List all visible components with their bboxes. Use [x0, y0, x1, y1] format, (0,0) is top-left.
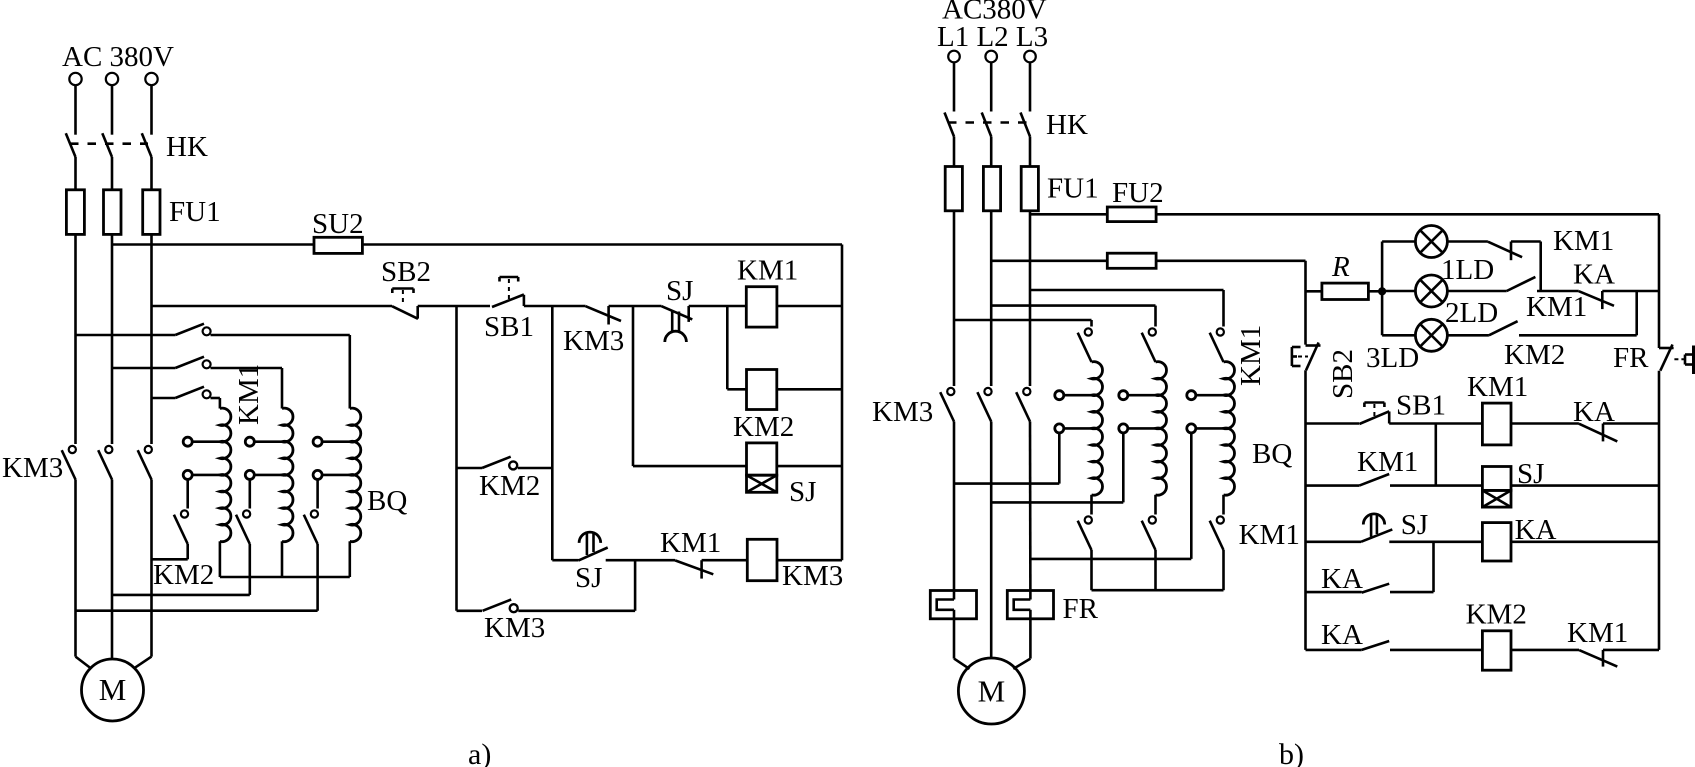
pushbutton SB1 (b)	[1364, 401, 1384, 404]
wire phase2 (b)	[990, 211, 993, 386]
contact KM3 power (b)	[947, 388, 954, 395]
wire	[1013, 659, 1030, 669]
resistor R	[1322, 283, 1369, 299]
contact KA NC (row4)	[1579, 424, 1617, 442]
wire	[111, 480, 114, 660]
lamp 3LD	[1415, 319, 1447, 351]
wire	[1511, 422, 1579, 425]
wire	[1090, 550, 1093, 590]
svg-text:2LD: 2LD	[1445, 297, 1498, 329]
wire	[1156, 259, 1305, 262]
wire	[953, 137, 956, 167]
wire top rail (a)	[112, 243, 314, 246]
svg-text:FU1: FU1	[1047, 173, 1099, 205]
wire	[1029, 610, 1032, 659]
svg-text:L1 L2 L3: L1 L2 L3	[937, 21, 1048, 53]
wire tap3 (b)	[1190, 433, 1193, 559]
coil KA (b)	[1482, 523, 1511, 561]
wire	[348, 541, 351, 577]
wire	[1511, 484, 1659, 487]
wire	[111, 157, 114, 190]
wire	[1222, 495, 1225, 515]
svg-text:M: M	[978, 674, 1006, 709]
contact KM2-3 (a)	[316, 479, 319, 508]
wire	[1511, 540, 1659, 543]
pushbutton SB1 (a)	[500, 276, 519, 279]
wire	[1447, 290, 1506, 293]
svg-text:KM1: KM1	[660, 527, 721, 559]
wire	[455, 306, 458, 611]
wire	[991, 259, 1107, 262]
svg-text:3LD: 3LD	[1366, 342, 1419, 374]
wire	[1029, 137, 1032, 167]
wire	[1368, 290, 1382, 293]
motor M (a)	[82, 659, 144, 721]
contact KM2-1 (a)	[186, 479, 189, 508]
fuse SU2	[314, 237, 362, 253]
svg-text:KM3: KM3	[563, 325, 624, 357]
wire	[1382, 290, 1415, 293]
contact KM1 NC (lamp1)	[1488, 242, 1522, 258]
wire	[1030, 289, 1224, 292]
terminal L1 (b)	[948, 51, 960, 63]
contact KM1-2 power (a)	[112, 367, 175, 370]
wire	[74, 480, 77, 657]
wire	[1432, 542, 1435, 592]
wire tap1 (b)	[1058, 433, 1061, 484]
fuse FU1-2 (b)	[983, 167, 1000, 211]
wire	[134, 657, 151, 669]
wire phase1 (b)	[953, 211, 956, 386]
contact KM3 power (a)	[105, 446, 112, 453]
contact KM1 bottom power (b)	[1085, 516, 1092, 523]
contact KM1 top power (b)	[1217, 328, 1224, 335]
contact KM1 bottom power (b)	[1149, 516, 1156, 523]
fuse FU2-2	[1107, 253, 1156, 268]
wire	[1156, 213, 1659, 216]
terminal L2 (b)	[985, 51, 997, 63]
svg-text:KM1: KM1	[1526, 291, 1587, 323]
contact SJ NO delayed (a)	[579, 532, 601, 543]
wire	[551, 306, 554, 560]
svg-text:KM3: KM3	[2, 452, 63, 484]
contact KM1 NO (lamp2)	[1507, 277, 1536, 291]
wire	[689, 305, 747, 308]
svg-text:HK: HK	[1046, 109, 1088, 141]
svg-text:KM2: KM2	[479, 470, 540, 502]
svg-text:KM2: KM2	[153, 559, 214, 591]
motor M (b)	[958, 658, 1024, 724]
wire	[1306, 591, 1362, 594]
wire	[518, 467, 553, 470]
svg-text:SB2: SB2	[1327, 349, 1359, 399]
fuse FU1-2 (a)	[104, 190, 122, 235]
coil KM2 (b)	[1482, 631, 1511, 670]
contact KM3 power (b)	[984, 388, 991, 395]
wire	[777, 388, 842, 391]
wire	[150, 157, 153, 190]
fuse FU1-3 (b)	[1021, 167, 1038, 211]
wire phase3 (b)	[1029, 211, 1032, 386]
svg-text:KM2: KM2	[1466, 599, 1527, 631]
svg-text:FR: FR	[1063, 593, 1099, 625]
terminal L3 (a)	[145, 73, 157, 85]
svg-text:KM1: KM1	[233, 364, 265, 425]
contact KM1 bottom power (b)	[1217, 516, 1224, 523]
svg-text:KM1: KM1	[1235, 325, 1267, 386]
wire star bus (a)	[220, 576, 350, 579]
contact KA NC (lamp row)	[1579, 291, 1614, 306]
overload FR heater 2 (b)	[1007, 591, 1053, 619]
wire	[1154, 306, 1157, 327]
wire	[1447, 334, 1489, 337]
svg-text:SB1: SB1	[1396, 390, 1446, 422]
transformer BQ winding 3 (a)	[350, 408, 361, 541]
wire phase3 (a)	[150, 234, 153, 444]
wire	[1306, 649, 1362, 652]
wire	[111, 85, 114, 135]
svg-text:SJ: SJ	[789, 476, 816, 508]
wire	[953, 610, 956, 659]
pushbutton SB2 (b)	[1306, 344, 1321, 347]
wire	[953, 422, 956, 600]
coil KM2 (a)	[747, 370, 777, 410]
wire	[609, 305, 662, 308]
svg-text:b): b)	[1279, 738, 1304, 767]
svg-text:M: M	[99, 672, 127, 707]
wire	[633, 465, 747, 468]
wire	[953, 62, 956, 111]
wire	[1090, 495, 1093, 515]
coil KM3 (a)	[747, 539, 777, 580]
wire	[1602, 290, 1659, 293]
wire	[1222, 290, 1225, 327]
svg-text:SB2: SB2	[381, 256, 431, 288]
wire	[457, 467, 483, 470]
wire	[1447, 240, 1488, 243]
wire	[777, 559, 842, 562]
terminal L3 (b)	[1024, 51, 1036, 63]
lamp 2LD	[1415, 275, 1447, 307]
svg-text:FU2: FU2	[1112, 177, 1164, 209]
contact KM2-2 (a)	[249, 479, 252, 508]
wire	[1539, 242, 1542, 292]
wire	[1306, 540, 1362, 543]
wire	[1382, 334, 1415, 337]
svg-text:KM1: KM1	[737, 255, 798, 287]
wire	[281, 541, 284, 577]
contact KM1 top power (b)	[1149, 328, 1156, 335]
wire	[418, 305, 490, 308]
overload FR heater 1 (b)	[930, 591, 976, 619]
svg-text:FU1: FU1	[169, 196, 221, 228]
wire	[990, 62, 993, 111]
wire	[1537, 290, 1579, 293]
pushbutton SB2 (a)	[392, 287, 413, 290]
svg-text:KM2: KM2	[733, 411, 794, 443]
wire top rail (b)	[1030, 213, 1107, 216]
contact KM2 NO (lamp3)	[1489, 321, 1518, 335]
wire	[990, 422, 993, 660]
wire	[1222, 550, 1225, 590]
svg-text:SJ: SJ	[575, 562, 602, 594]
wire	[1658, 371, 1661, 650]
wire	[1603, 422, 1659, 425]
wire	[777, 305, 842, 308]
svg-text:KM2: KM2	[1504, 339, 1565, 371]
svg-text:1LD: 1LD	[1441, 254, 1494, 286]
wire	[954, 659, 970, 669]
transformer BQ winding (b)	[1156, 362, 1167, 495]
wire	[74, 157, 77, 190]
fuse FU1-1 (b)	[945, 167, 962, 211]
wire	[524, 305, 586, 308]
contact SJ NC delayed (a rail)	[662, 306, 693, 319]
svg-text:BQ: BQ	[1252, 438, 1292, 470]
wire phase2 (a)	[111, 234, 114, 444]
wire	[1306, 484, 1360, 487]
contact KA NO (row7)	[1362, 641, 1390, 650]
fuse FU1-3 (a)	[143, 190, 160, 235]
contact SJ NO delayed (b)	[1363, 514, 1384, 525]
contact KM1 NO (b hold)	[1359, 474, 1389, 486]
contact KM1 NC (a)	[675, 560, 713, 574]
transformer BQ winding (b)	[1092, 362, 1103, 495]
wire	[1519, 334, 1637, 337]
wire	[777, 465, 842, 468]
wire phase1 (a)	[74, 234, 77, 444]
wire	[76, 657, 91, 669]
contact KM3 NC (a rail)	[586, 306, 621, 321]
contact KA NO (b hold)	[1362, 584, 1390, 593]
wire	[1306, 290, 1322, 293]
terminal L1 (a)	[69, 73, 81, 85]
switch HK (b) pole 2	[982, 113, 992, 137]
svg-text:KM3: KM3	[484, 612, 545, 644]
wire left bus (b)	[1304, 261, 1307, 345]
coil SJ (b)	[1482, 467, 1511, 491]
wire	[1389, 540, 1482, 543]
wire	[150, 85, 153, 135]
switch HK (b) linkage	[948, 121, 1027, 124]
wire	[1029, 422, 1032, 600]
wire	[362, 243, 842, 246]
svg-text:R: R	[1331, 251, 1350, 283]
wire	[1390, 591, 1434, 594]
svg-text:KM1: KM1	[1239, 519, 1300, 551]
wire	[1381, 242, 1384, 336]
coil SJ (a)	[747, 443, 777, 475]
svg-text:KM1: KM1	[1357, 446, 1418, 478]
wire	[634, 560, 637, 611]
wire	[219, 541, 222, 577]
wire right bus (a)	[841, 245, 844, 561]
wire	[1382, 240, 1415, 243]
wire	[1390, 484, 1482, 487]
wire right bus (b)	[1658, 214, 1661, 348]
wire	[152, 305, 393, 308]
wire	[457, 609, 483, 612]
svg-text:SJ: SJ	[1401, 509, 1428, 541]
switch HK (b) pole 1	[945, 113, 955, 137]
wire	[552, 559, 578, 562]
contact KM3 power (a)	[145, 446, 152, 453]
svg-text:SU2: SU2	[312, 208, 364, 240]
svg-text:a): a)	[468, 738, 491, 767]
wire	[1635, 291, 1638, 335]
wire	[1389, 422, 1482, 425]
svg-text:KA: KA	[1321, 563, 1363, 595]
svg-text:AC 380V: AC 380V	[62, 41, 174, 73]
contact KM3 power (a)	[69, 446, 76, 453]
svg-text:FR: FR	[1613, 342, 1649, 374]
lamp 1LD	[1415, 226, 1447, 258]
contact KM3 power (b)	[1023, 388, 1030, 395]
contact KM1-3 power (a)	[152, 397, 176, 400]
wire	[1511, 649, 1579, 652]
wire	[1603, 649, 1659, 652]
wire	[1154, 495, 1157, 515]
contact KM2 NO (a bridge)	[482, 457, 511, 468]
wire	[1390, 649, 1482, 652]
wire	[606, 559, 675, 562]
wire	[518, 609, 635, 612]
svg-text:KM1: KM1	[1553, 225, 1614, 257]
contact KM3 NO (a latch)	[483, 600, 512, 611]
wire	[150, 480, 153, 657]
wire	[990, 137, 993, 167]
wire	[991, 304, 1155, 307]
wire	[1435, 424, 1438, 486]
wire	[954, 319, 1092, 322]
transformer BQ winding 1 (a)	[220, 408, 231, 541]
coil KM1 (b)	[1482, 403, 1511, 445]
contact FR NC (b)	[1659, 347, 1674, 350]
svg-text:KM1: KM1	[1467, 371, 1528, 403]
contact KM1 NC (row7)	[1579, 650, 1617, 667]
svg-text:KM3: KM3	[782, 560, 843, 592]
wire star bus (b)	[1092, 589, 1224, 592]
wire	[1511, 240, 1541, 243]
svg-text:KM3: KM3	[872, 396, 933, 428]
wire	[632, 306, 635, 466]
switch HK (b) pole 3	[1021, 113, 1031, 137]
wire	[1090, 320, 1093, 327]
node junction after R	[1379, 288, 1386, 295]
switch HK (a) pole 3	[142, 133, 152, 157]
wire	[727, 388, 746, 391]
svg-text:SB1: SB1	[484, 311, 534, 343]
svg-text:SJ: SJ	[666, 275, 693, 307]
wire	[1304, 370, 1307, 650]
contact KM1-1 power (a)	[76, 334, 176, 337]
wire	[702, 559, 748, 562]
wire	[1154, 550, 1157, 590]
switch HK (a) pole 1	[66, 133, 76, 157]
wire	[1029, 62, 1032, 111]
wire tap2 (b)	[1122, 433, 1125, 503]
wire	[1306, 422, 1360, 425]
svg-text:HK: HK	[166, 131, 208, 163]
coil KM1 (a)	[746, 287, 777, 327]
wire	[726, 306, 729, 389]
transformer BQ winding 2 (a)	[282, 408, 293, 541]
contact KM1 top power (b)	[1085, 328, 1092, 335]
wire	[74, 85, 77, 135]
terminal L2 (a)	[106, 73, 118, 85]
switch HK (a) pole 2	[102, 133, 112, 157]
svg-text:KM1: KM1	[1567, 617, 1628, 649]
svg-text:BQ: BQ	[367, 485, 407, 517]
svg-text:KA: KA	[1573, 259, 1615, 291]
fuse FU2-1	[1107, 207, 1156, 222]
transformer BQ winding (b)	[1224, 362, 1235, 495]
switch HK (a) linkage	[70, 142, 148, 145]
svg-text:KA: KA	[1321, 619, 1363, 651]
fuse FU1-1 (a)	[66, 190, 84, 235]
